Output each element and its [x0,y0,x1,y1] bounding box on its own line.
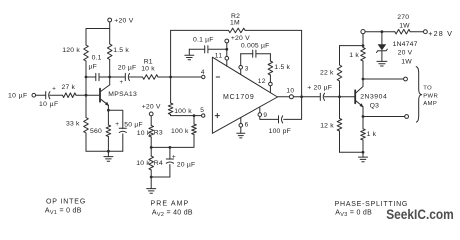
wire 120k to bias line [85,61,87,95]
label: input 10 uF [8,93,28,100]
label OP INTEG [46,199,86,206]
wire: stage-1 ground rail [86,150,123,152]
svg-text:1 k: 1 k [367,131,377,138]
pin 6 [239,118,249,129]
transistor Q1 MPSA13 [100,77,110,110]
svg-text:+28 V: +28 V [428,29,453,38]
wire mid bias rail [151,137,194,147]
terminal emitter output [405,115,409,119]
resistor 100 k (lower) [171,116,196,137]
svg-text:10 k: 10 k [137,130,151,137]
node: 22k/1k junction [362,44,365,47]
resistor R1 10 k [130,58,159,79]
pin 4 (inverting input) [201,69,205,79]
svg-text:20 V: 20 V [398,50,413,57]
label MPSA13 [108,91,137,98]
svg-text:R1: R1 [144,58,153,65]
svg-text:3: 3 [245,66,249,73]
svg-text:100 pF: 100 pF [269,128,291,135]
input terminal [32,93,36,97]
svg-text:µF: µF [89,63,97,70]
resistor R3 10 k [137,116,163,148]
terminal collector output [404,77,408,81]
svg-text:+20 V: +20 V [142,103,161,110]
pin 3 [239,66,249,75]
node: zener tap [381,30,384,33]
op-amp U1 MC1709 [212,57,277,133]
svg-text:4: 4 [201,69,205,76]
svg-text:1.5 k: 1.5 k [274,64,290,71]
svg-text:27 k: 27 k [62,84,76,91]
svg-text:6: 6 [245,121,249,128]
svg-text:TO: TO [423,85,432,91]
svg-text:1M: 1M [230,20,240,27]
svg-text:270: 270 [397,14,409,21]
node: ground junction [107,150,110,153]
wire input to C1 [36,94,46,96]
wire 27k to Q1 base [76,94,100,96]
ground (zener) [377,61,387,66]
resistor 22 k [320,46,342,97]
svg-text:MPSA13: MPSA13 [108,91,137,98]
svg-text:+20 V: +20 V [114,17,134,24]
svg-text:33 k: 33 k [66,120,80,127]
svg-text:10 µF: 10 µF [39,101,59,108]
resistor 27 k [62,84,77,98]
svg-text:SeekIC.com: SeekIC.com [386,207,454,222]
svg-text:10 µF: 10 µF [8,93,28,100]
ground (first stage) [104,151,113,161]
node: output junction [300,95,303,98]
wire collector to 20uF [110,76,126,78]
svg-text:1N4747: 1N4747 [393,41,418,48]
node: Q3 collector output [362,78,365,81]
svg-text:11: 11 [215,53,223,60]
brace to power amp [416,67,422,123]
svg-text:+20 V: +20 V [231,35,250,42]
terminal +20 V (op-amp) [225,35,250,49]
pin 12 [258,78,272,93]
capacitor 0.1 uF (base-collector) [86,55,110,81]
svg-text:0.1: 0.1 [92,55,102,62]
svg-text:1W: 1W [399,23,410,30]
node: pin11/0.1uF junction [225,48,228,51]
svg-text:+: + [115,121,119,128]
ground (0.1 uF) [185,49,194,60]
wire 33k to ground rail [85,95,87,117]
resistor 270 (+28 V feed) [365,14,423,34]
ground (pin 6) [237,127,245,138]
watermark SeekIC.com [386,207,454,222]
node: 20uF bypass top [169,146,172,149]
capacitor 0.1 uF (supply bypass) [189,36,227,53]
node: Q3 ground [362,151,365,154]
resistor 1 k (emitter) [361,117,377,153]
node: Q3 base bias [338,95,341,98]
node: Q1 base junction [85,94,88,97]
wire coupling cap to Q3 base [325,96,356,98]
label PHASE-SPLITTING [335,201,408,208]
wire pin-5 line [171,115,202,117]
svg-text:Q3: Q3 [370,103,380,110]
resistor 1.5 k [107,29,129,78]
svg-text:10 k: 10 k [141,66,155,73]
svg-text:100 k: 100 k [174,108,192,115]
capacitor 20 uF (divider bypass) [166,147,195,177]
label AV2 = 40 dB [152,209,193,218]
svg-text:R4: R4 [154,160,163,167]
capacitor C1 10 uF (input coupling) [39,87,59,108]
resistor 1 k (collector) [349,46,365,79]
resistor 120 k [62,45,88,61]
ground (bias divider) [147,177,156,193]
compensation 0.005 uF [241,42,271,65]
node: Q1 collector [108,76,111,79]
svg-text:120 k: 120 k [62,47,80,54]
node: 100k tap [193,114,196,117]
wire 33k bottom [85,133,87,151]
resistor 12 k [320,97,342,153]
svg-text:1 k: 1 k [349,52,359,59]
node: Q1 emitter [107,109,110,112]
label TO PWR AMP [423,85,438,107]
svg-text:0.005 µF: 0.005 µF [241,42,270,49]
svg-text:PWR: PWR [423,93,438,99]
label 2N3904 Q3 [360,94,387,110]
compensation resistor 1.5 k [268,54,290,82]
terminal +28 V [424,29,454,38]
svg-text:PRE AMP: PRE AMP [151,200,190,207]
wire emitter to 50uF [108,110,122,128]
node: R3/R4 junction [150,146,153,149]
svg-text:0.1 µF: 0.1 µF [193,36,214,43]
wire emitter output [363,116,405,118]
svg-text:12: 12 [258,78,266,85]
pin 5 (non-inverting input) [200,107,205,117]
pin 11 [215,49,229,66]
terminal +20 V (left) [108,17,134,24]
label AV3 = 0 dB [335,210,372,219]
svg-text:OP INTEG: OP INTEG [46,199,86,206]
svg-text:10 k: 10 k [136,160,150,167]
capacitor 50 uF (emitter bypass) [115,121,143,151]
wire collector output [363,78,404,80]
svg-text:MC1709: MC1709 [223,94,255,101]
capacitor 100 pF [260,97,302,135]
wire Q3 bottom rail [340,151,364,153]
resistor R2 1 M (feedback) [171,13,302,97]
svg-text:100 k: 100 k [171,128,189,135]
svg-text:22 k: 22 k [320,70,334,77]
svg-text:50 µF: 50 µF [124,122,143,129]
wire R1 to pin 4 [158,76,202,78]
terminal (supply tap) [361,30,365,46]
svg-text:10: 10 [286,88,294,95]
ground (phase splitter) [359,152,368,161]
capacitor 20 uF (output coupling) [307,84,332,100]
svg-text:5: 5 [200,107,204,114]
transistor Q3 2N3904 [355,79,363,117]
svg-text:9: 9 [263,112,267,119]
svg-text:1.5 k: 1.5 k [113,47,129,54]
svg-text:20 µF: 20 µF [118,64,137,71]
svg-text:AMP: AMP [423,101,437,107]
wire C1 to R 27k [50,94,63,96]
label 1N4747 20V 1W [393,41,418,65]
zener diode 1N4747 [377,32,388,62]
node: 120k / 0.1uF junction [85,76,88,79]
svg-text:12 k: 12 k [320,123,334,130]
node: R1 / R2 junction [169,76,172,79]
svg-text:560: 560 [90,128,102,135]
wire op-amp output [293,96,320,98]
label AV1 = 0 dB [45,207,82,216]
node: divider ground junction [150,176,153,179]
svg-text:+: + [172,153,176,160]
resistor 560 [90,110,111,151]
svg-text:+ 20 µF: + 20 µF [307,84,332,91]
svg-text:+: + [52,87,56,93]
svg-text:1W: 1W [401,58,412,65]
wire 22k to collector branch [340,45,364,47]
wire divider bottom rail [151,176,170,178]
wire +20V rail left [86,22,110,45]
resistor 33 k [66,118,88,134]
resistor 100 k (upper) [168,77,192,116]
terminal +20 V (bias divider) [142,103,161,115]
svg-text:20 µF: 20 µF [177,161,196,168]
resistor R4 10 k [136,147,163,177]
pin 9 [258,108,267,120]
svg-text:+: + [120,80,124,86]
svg-text:R3: R3 [154,130,163,137]
node: Q3 emitter output [362,115,365,118]
label PRE AMP [151,200,190,207]
svg-text:2N3904: 2N3904 [360,94,387,101]
pin 10 (output) [278,88,295,99]
capacitor 20 uF (interstage) [118,64,137,86]
